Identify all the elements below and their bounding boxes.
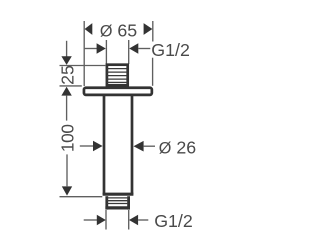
node down arrow of 100 xyxy=(62,186,72,195)
wire thread hatch line 2 of top stub xyxy=(107,71,128,73)
wire bottom extension line of 100 xyxy=(60,196,103,198)
wire top extension line of 25 xyxy=(60,65,106,67)
wire tail of left arrow bottom G1/2 xyxy=(84,219,98,221)
wire right extension line of diameter 65 lower segment xyxy=(152,58,154,86)
svg-text:G1/2: G1/2 xyxy=(154,211,193,231)
svg-text:Ø 26: Ø 26 xyxy=(159,138,196,158)
wire dimension line of 100 xyxy=(66,154,68,186)
wire bottom extension line of 25 xyxy=(60,85,82,87)
wire thread hatch line 1 of top stub xyxy=(107,68,128,70)
wire tail of right arrow top G1/2 xyxy=(138,48,150,50)
wire tail of right arrow bottom G1/2 xyxy=(138,219,148,221)
wire right extension line of diameter 65 upper segment xyxy=(152,21,154,42)
node dimension arrow right of diameter 65 xyxy=(144,23,153,35)
wire thread hatch line 3 of top stub xyxy=(107,75,128,77)
wire left extension line of bottom G1/2 xyxy=(105,210,107,230)
svg-text:25: 25 xyxy=(57,65,77,85)
node right arrow bottom G1/2 xyxy=(129,215,138,226)
component bottom G1/2 threaded stub outline xyxy=(105,196,108,209)
svg-text:Ø 65: Ø 65 xyxy=(100,20,137,40)
svg-text:G1/2: G1/2 xyxy=(151,40,190,60)
wire vertical tail below up-arrow of 25 xyxy=(66,96,68,121)
wire right extension line of bottom G1/2 xyxy=(128,210,130,230)
wire pipe left wall xyxy=(103,96,106,195)
wire tail of right arrow diameter 26 xyxy=(144,145,155,147)
wire thread hatch line 1 of bottom stub xyxy=(107,197,127,199)
node down arrow of 25 xyxy=(61,56,71,65)
node left arrow bottom G1/2 xyxy=(97,215,106,226)
wire tail of left arrow diameter 26 xyxy=(80,145,94,147)
wire left extension line of top thread xyxy=(105,40,107,64)
wire thread hatch line 2 of bottom stub xyxy=(107,200,127,202)
wire right extension line of top thread xyxy=(128,40,130,64)
wire thread hatch line 3 of bottom stub xyxy=(107,203,127,205)
wire pipe right wall xyxy=(131,96,134,195)
wire thread hatch line 4 of top stub xyxy=(107,78,128,80)
node dimension arrow left of diameter 65 xyxy=(85,23,93,35)
node right arrow top G1/2 xyxy=(129,43,138,54)
svg-text:100: 100 xyxy=(58,124,78,152)
node left arrow top G1/2 xyxy=(97,43,106,54)
wire tail of left arrow top G1/2 xyxy=(85,48,98,50)
component top G1/2 threaded stub outline xyxy=(107,65,128,86)
node left arrow diameter 26 xyxy=(93,141,103,152)
wire thread hatch line 5 of top stub xyxy=(107,81,128,83)
node right arrow diameter 26 xyxy=(134,141,144,152)
wire pipe bottom edge xyxy=(103,193,134,196)
wire vertical tail above down-arrow of 25 xyxy=(66,41,68,57)
component ceiling flange escutcheon xyxy=(84,88,152,95)
wire left extension line of diameter 65 xyxy=(83,21,85,86)
node up arrow of 25 xyxy=(61,87,71,96)
